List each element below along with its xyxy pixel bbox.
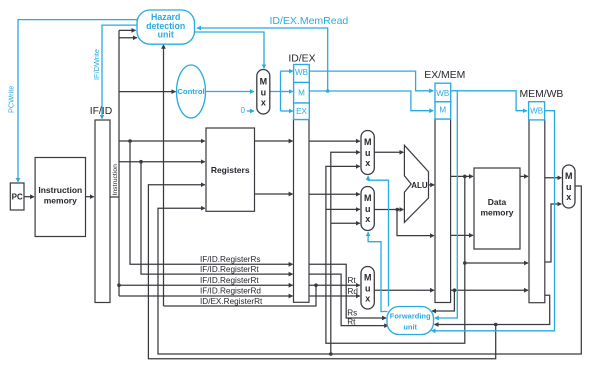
MEM/WB WB box — [529, 102, 545, 120]
wire ForwardB select — [368, 232, 387, 311]
svg-text:Rt: Rt — [347, 318, 356, 327]
wire IF/ID read register 1 — [119, 140, 205, 142]
wire hazard input stub 2 — [119, 37, 137, 39]
junction ID/EX Rt to hazard — [314, 283, 318, 287]
wire ForwardA select — [368, 176, 388, 306]
arrow into ID/EX M — [281, 91, 293, 93]
svg-text:EX/MEM: EX/MEM — [424, 70, 465, 81]
wire ALU mux B output — [374, 209, 403, 211]
svg-text:unit: unit — [158, 30, 174, 40]
svg-text:Rs: Rs — [347, 309, 357, 318]
svg-text:u: u — [566, 182, 572, 192]
pipeline register ID/EX — [294, 120, 310, 303]
wire WB forward path — [331, 152, 360, 354]
wire IF/ID.RegisterRt line 2 — [141, 162, 293, 274]
PC — [10, 183, 24, 210]
forwarding unit — [387, 307, 434, 335]
svg-text:u: u — [365, 283, 371, 293]
wire MEM/WB ALU result to write-back mux — [545, 204, 562, 262]
wire control to mux — [206, 91, 255, 93]
svg-text:WB: WB — [436, 89, 449, 98]
mux ALU operand A — [361, 131, 374, 175]
svg-text:memory: memory — [44, 196, 77, 206]
svg-text:Registers: Registers — [211, 165, 250, 175]
svg-text:ID/EX.MemRead: ID/EX.MemRead — [270, 15, 349, 27]
svg-text:Data: Data — [488, 197, 507, 207]
wire ID/EX Rd to destination mux — [309, 295, 360, 297]
svg-text:Rt: Rt — [348, 276, 357, 285]
label instruction field — [111, 154, 118, 196]
wire EX/MEM Rd to MEM/WB — [451, 289, 529, 291]
wire ID/EX.MemRead to hazard unit — [197, 28, 328, 91]
wire EX/MEM Rd to forwarding unit — [432, 290, 454, 311]
svg-text:MEM/WB: MEM/WB — [520, 89, 564, 100]
wire data memory read data to MEM/WB — [520, 175, 528, 177]
svg-text:Instruction: Instruction — [38, 185, 82, 195]
svg-text:IF/ID.RegisterRd: IF/ID.RegisterRd — [200, 287, 261, 296]
wire IF/ID.RegisterRt line 3 — [119, 284, 293, 286]
wire IF/ID.RegisterRs line 1 — [130, 141, 293, 264]
svg-text:M: M — [364, 193, 372, 203]
svg-text:x: x — [365, 214, 370, 224]
wire MEM/WB WB output — [432, 111, 555, 331]
wire PC to instruction memory — [24, 196, 34, 198]
junction instruction Rs branch — [128, 139, 132, 143]
svg-text:PCWrite: PCWrite — [7, 86, 16, 113]
wire MEM/WB Rd to forwarding unit — [435, 295, 550, 324]
svg-text:WB: WB — [295, 68, 308, 77]
svg-text:u: u — [261, 87, 267, 97]
wire registers read data 1 — [255, 140, 293, 142]
svg-text:M: M — [439, 106, 446, 115]
ALU — [404, 145, 428, 222]
wire ID/EX M to EX/MEM M — [309, 91, 433, 111]
arrow into ID/EX EX — [281, 110, 293, 112]
pipeline register MEM/WB — [529, 120, 545, 303]
arrow into ID/EX WB — [281, 70, 293, 72]
instruction memory — [35, 158, 85, 237]
wire instruction out of IF/ID — [110, 196, 119, 198]
svg-text:M: M — [298, 88, 305, 97]
svg-text:x: x — [365, 158, 370, 168]
wire PCWrite — [18, 20, 139, 182]
wire ID/EX read data 2 to ALU mux B — [309, 193, 360, 195]
wire ID/EX Rt to forwarding unit — [309, 274, 388, 326]
wire ID/EX Rt to destination mux — [309, 284, 360, 286]
ID/EX M box — [294, 83, 310, 104]
svg-text:IF/ID.RegisterRt: IF/ID.RegisterRt — [200, 276, 259, 285]
registers — [206, 128, 255, 211]
wire ID/EX.RegisterRt to hazard unit — [163, 45, 165, 306]
wire instruction to control — [119, 91, 176, 93]
svg-text:Control: Control — [177, 87, 204, 96]
svg-text:Rd: Rd — [348, 287, 359, 296]
junction ALU operand B — [396, 208, 400, 212]
wire registers read data 2 — [255, 193, 293, 195]
svg-text:IF/DWrite: IF/DWrite — [92, 49, 101, 80]
wire write-back mux output wrap to registers write data — [158, 186, 581, 354]
junction MEM/WB Rd wrap — [494, 323, 498, 327]
wire EX/MEM forward stub to mux B — [326, 208, 360, 210]
svg-text:x: x — [261, 97, 266, 107]
wire EX/MEM ALU result to data memory address — [451, 175, 474, 177]
wire MEM/WB Rd wrap to registers write register — [148, 185, 495, 359]
svg-text:M: M — [364, 272, 372, 282]
svg-text:x: x — [365, 293, 370, 303]
wire ALU result to EX/MEM — [429, 184, 435, 186]
wire IF/ID.RegisterRd line 4 — [119, 295, 293, 297]
svg-text:WB: WB — [530, 107, 543, 116]
control unit — [177, 65, 206, 118]
junction EX/MEM Rd — [453, 288, 457, 292]
mux destination register — [361, 267, 374, 310]
junction ALU result bypass — [463, 261, 467, 265]
hazard detection unit — [137, 10, 195, 44]
junction ID/EX.MemRead tap — [326, 89, 330, 93]
data memory — [474, 168, 520, 249]
pipeline register IF/ID — [95, 120, 110, 303]
wire hazard input stub 1 — [119, 29, 136, 31]
wire ALU mux A output — [374, 151, 403, 153]
svg-text:memory: memory — [480, 208, 513, 218]
svg-text:u: u — [365, 148, 371, 158]
mux letter labels — [260, 76, 573, 303]
wire zero constant into mux — [247, 110, 254, 112]
svg-text:IF/ID.RegisterRt: IF/ID.RegisterRt — [200, 265, 259, 274]
wire IF/ID read register 2 — [119, 161, 205, 163]
mux ALU operand B — [361, 187, 374, 231]
svg-text:0: 0 — [241, 106, 246, 115]
wire ID/EX read data 1 to ALU mux A — [309, 140, 360, 142]
svg-text:ID/EX.RegisterRt: ID/EX.RegisterRt — [200, 297, 263, 306]
EX/MEM WB box — [435, 83, 451, 102]
svg-text:ID/EX: ID/EX — [288, 54, 315, 65]
svg-text:M: M — [364, 137, 372, 147]
svg-text:unit: unit — [403, 323, 417, 332]
wire WB forward stub to mux B — [331, 222, 360, 224]
junction EX/MEM ALU result — [463, 175, 467, 179]
ID/EX WB box — [294, 65, 310, 83]
ID/EX EX box — [294, 103, 310, 120]
svg-text:IF/ID: IF/ID — [90, 106, 113, 117]
wire EX/MEM forward path — [326, 166, 465, 343]
wire EX/MEM RegWrite to forwarding unit — [435, 91, 458, 318]
wire EX/MEM WB to MEM/WB WB — [451, 91, 527, 111]
svg-text:M: M — [565, 171, 573, 181]
wire IF/DWrite — [102, 25, 139, 119]
wire control mux output to ID/EX — [270, 71, 281, 111]
wire ID/EX WB to EX/MEM WB — [309, 71, 433, 91]
wire ALU operand B to EX/MEM write data — [397, 210, 434, 236]
svg-text:Instruction: Instruction — [112, 164, 119, 196]
wire ID/EX.RegisterRt line 5 — [164, 285, 317, 306]
pipeline register EX/MEM — [435, 119, 451, 303]
wire instruction bus vertical — [118, 30, 120, 296]
svg-text:x: x — [566, 192, 571, 202]
svg-text:ALU: ALU — [411, 181, 428, 190]
wire MEM/WB read data to write-back mux — [545, 177, 562, 179]
svg-text:M: M — [260, 76, 268, 86]
wire hazard mux select — [194, 32, 264, 68]
junction instruction Rt branch — [139, 160, 143, 164]
svg-text:PC: PC — [12, 193, 23, 202]
wire ID/EX Rs to forwarding unit — [309, 264, 386, 318]
mux hazard-control (stall) — [257, 70, 270, 115]
EX/MEM M box — [435, 102, 451, 119]
svg-text:u: u — [365, 204, 371, 214]
wire EX/MEM write data to data memory — [451, 234, 474, 236]
wire ALU result bypass to MEM/WB — [465, 262, 528, 264]
junction instruction Rt line 3 — [117, 283, 121, 287]
mux write-back — [563, 165, 576, 208]
wire destination mux output to EX/MEM — [374, 289, 434, 291]
svg-text:EX: EX — [296, 107, 307, 116]
svg-text:IF/ID.RegisterRs: IF/ID.RegisterRs — [200, 255, 261, 264]
junction WB value forward — [329, 352, 333, 356]
wire instruction memory to IF/ID — [86, 196, 94, 198]
svg-text:Forwarding: Forwarding — [390, 312, 431, 321]
